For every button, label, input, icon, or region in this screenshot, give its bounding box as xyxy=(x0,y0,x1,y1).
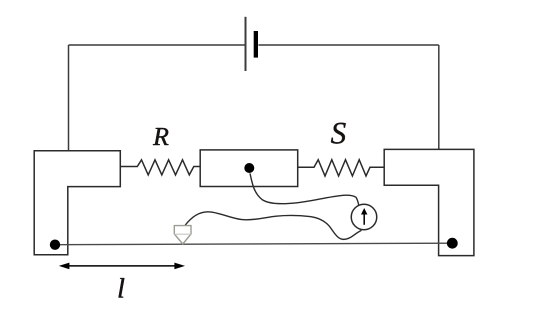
node dot on resistance box xyxy=(244,163,254,173)
battery B1 short thick plate xyxy=(254,31,258,58)
wire right vertical xyxy=(438,45,440,150)
resistance box with sliding contact xyxy=(200,150,298,187)
galvanometer G needle arrow xyxy=(363,213,365,225)
label S xyxy=(331,123,346,144)
wire top-left from battery to left corner xyxy=(69,44,246,46)
wire from jockey to galvanometer (wavy with loop) xyxy=(185,212,362,239)
node dot right end of slide wire xyxy=(447,238,458,249)
resistor S zigzag xyxy=(298,160,385,176)
label l xyxy=(119,278,125,297)
jockey contact xyxy=(174,226,191,244)
wire top-right from battery to right corner xyxy=(258,44,438,46)
slide wire xyxy=(55,243,452,245)
wire from box dot to galvanometer xyxy=(250,173,359,205)
battery B1 long plate xyxy=(245,17,247,71)
label R xyxy=(153,128,169,145)
node dot left end of slide wire xyxy=(50,240,60,250)
wire left vertical xyxy=(68,45,70,151)
resistor R zigzag xyxy=(120,160,200,175)
galvanometer G body xyxy=(351,204,377,230)
dimension arrow for length l xyxy=(63,265,180,267)
right terminal block xyxy=(384,149,474,255)
left terminal block xyxy=(34,151,120,255)
